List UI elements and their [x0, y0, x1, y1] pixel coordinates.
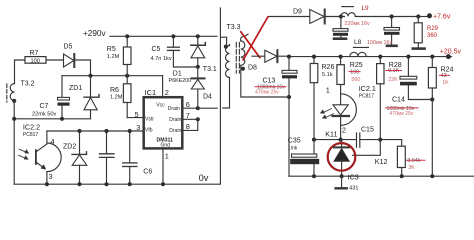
svg-text:D1: D1: [173, 70, 182, 77]
svg-text:470мк 25v: 470мк 25v: [390, 111, 414, 117]
capacitor C13: [255, 57, 297, 97]
junction dot rail/ZD2: [77, 182, 81, 186]
svg-text:Drain: Drain: [169, 117, 181, 123]
node +20.5v terminal: [440, 48, 462, 59]
svg-text:100: 100: [350, 69, 359, 75]
capacitor C7: [32, 97, 70, 118]
junction dot +290/D1: [196, 34, 200, 38]
T3 core lines: [236, 43, 239, 74]
wire drain to winding: [198, 78, 230, 109]
junction dot D8/C13: [287, 55, 291, 59]
junction dot C6/pin3: [128, 129, 132, 133]
IC1 pin 8 stub: [182, 119, 198, 131]
svg-text:R5: R5: [107, 46, 116, 53]
svg-text:5: 5: [135, 110, 139, 119]
red circle TL431: [328, 143, 356, 171]
wire T3.2 top to R7: [15, 60, 26, 84]
node T3.1 junction: [196, 65, 217, 73]
wire to D9: [268, 16, 310, 18]
wire +20.5v rail: [289, 56, 452, 58]
svg-text:L9: L9: [362, 5, 370, 12]
IC1 pin 7 stub: [182, 111, 200, 121]
svg-text:T3.2: T3.2: [21, 81, 35, 88]
svg-text:+7.6v: +7.6v: [433, 14, 451, 21]
svg-text:PC817: PC817: [359, 93, 375, 99]
wire T3.2 bottom to rail: [13, 101, 15, 184]
wire K12 to TL431 ref: [353, 140, 381, 156]
wire Vcc bus: [62, 75, 163, 77]
junction dot C7/pin5: [60, 117, 64, 121]
IC1 pin 6 stub: [182, 100, 200, 110]
svg-text:IC1: IC1: [145, 88, 157, 97]
junction dot R25 top: [339, 55, 343, 59]
svg-text:C35: C35: [288, 138, 301, 145]
diode D1 P6KE200: [169, 36, 206, 84]
svg-text:PC817: PC817: [23, 132, 39, 138]
wire C7 drop: [61, 76, 63, 98]
junction dot R24 top: [430, 55, 434, 59]
junction dot R24/C14: [430, 97, 434, 101]
capacitor C35: [288, 138, 319, 177]
junction dot cap/pin3: [104, 129, 108, 133]
junction dot C35 rail: [312, 174, 316, 178]
IC1 pin 2 wire: [163, 76, 169, 98]
wire K12 to 3K resistor: [380, 140, 401, 147]
svg-text:R29: R29: [427, 26, 439, 32]
junction dot +290/R5: [125, 34, 129, 38]
diode D4: [191, 67, 212, 108]
svg-text:IC2.2: IC2.2: [23, 123, 40, 132]
wire secondary return: [288, 97, 290, 176]
svg-text:6: 6: [186, 100, 190, 109]
junction dot rail/pin1: [161, 182, 165, 186]
junction dot R26 top: [312, 55, 316, 59]
node 0v label: [199, 173, 209, 183]
svg-text:100мк 16v: 100мк 16v: [367, 40, 393, 46]
svg-text:3.94k: 3.94k: [407, 158, 420, 164]
junction dot Vcc/D5: [88, 74, 92, 78]
wire R24C14 to rail: [431, 100, 433, 177]
capacitor C6: [123, 131, 153, 184]
svg-text:22K: 22K: [388, 77, 398, 83]
svg-text:+20.5v: +20.5v: [440, 48, 462, 55]
junction dot ZD2/pin3: [77, 129, 81, 133]
svg-text:5.1k: 5.1k: [322, 72, 333, 78]
node K12: [375, 138, 388, 167]
junction dot +290/C5: [171, 34, 175, 38]
T3.2 core dashed: [6, 84, 8, 102]
svg-text:D5: D5: [64, 44, 73, 51]
svg-text:C5: C5: [152, 46, 161, 53]
svg-text:2: 2: [342, 125, 346, 134]
svg-text:3: 3: [49, 172, 53, 181]
svg-text:7: 7: [186, 111, 190, 120]
red cross arm 1: [243, 17, 268, 60]
junction dot 3K rail: [400, 174, 404, 178]
junction dot Vcc/R5R6: [125, 74, 129, 78]
svg-text:4: 4: [51, 137, 55, 146]
optocoupler IC2.1 LED: [320, 84, 376, 140]
capacitor 100mk: [367, 17, 400, 47]
svg-text:ZD1: ZD1: [69, 85, 82, 92]
svg-text:8: 8: [186, 122, 190, 131]
wire K11 row: [314, 139, 356, 141]
node K11: [325, 130, 343, 142]
zener ZD2: [63, 131, 87, 184]
capacitor C15: [357, 127, 381, 148]
svg-text:1: 1: [165, 152, 169, 161]
IC1 DM311: [144, 88, 183, 148]
optocoupler IC2.2 phototransistor: [19, 123, 62, 185]
T3 primary winding T3.1: [221, 37, 230, 77]
node +290v label: [83, 29, 106, 38]
capacitor on Vfb line: [100, 131, 115, 184]
svg-text:2: 2: [165, 88, 169, 97]
svg-text:T3.3: T3.3: [227, 24, 241, 31]
wire +290v rail: [110, 35, 217, 37]
svg-text:1.2M: 1.2M: [110, 94, 123, 100]
svg-text:P6KE200: P6KE200: [169, 78, 192, 84]
inductor L8: [350, 39, 369, 56]
svg-text:ZD2: ZD2: [63, 143, 76, 150]
junction dot C14 top: [406, 55, 410, 59]
svg-text:3K: 3K: [408, 165, 415, 171]
resistor R25: [337, 57, 363, 105]
svg-text:T3.1: T3.1: [203, 66, 217, 73]
svg-text:Vfb: Vfb: [145, 128, 153, 134]
svg-text:D9: D9: [293, 9, 302, 16]
svg-text:Gnd: Gnd: [161, 142, 171, 148]
wire R7 to D5: [46, 59, 64, 61]
svg-text:C7: C7: [40, 103, 49, 110]
wire T3.2 C7 ZD1 net: [14, 118, 90, 120]
inductor L9: [341, 5, 418, 17]
svg-text:1: 1: [326, 86, 330, 95]
svg-text:4.7n 1kv: 4.7n 1kv: [151, 56, 172, 62]
T3 secondary winding: [241, 41, 289, 97]
junction dot R28 top: [378, 55, 382, 59]
svg-text:470мк 25v: 470мк 25v: [255, 90, 279, 96]
svg-text:Vcc: Vcc: [156, 103, 165, 109]
svg-text:+290v: +290v: [83, 29, 106, 38]
svg-text:1K: 1K: [442, 80, 449, 86]
svg-text:3: 3: [136, 123, 140, 132]
zener ZD1: [69, 76, 99, 119]
junction dot R29: [416, 14, 420, 18]
IC1 pin 5 wire Vstr: [127, 110, 144, 119]
node +7.6v terminal: [418, 13, 451, 20]
resistor R28: [377, 57, 402, 140]
transformer winding T3.2: [10, 81, 34, 101]
svg-text:Vstr: Vstr: [145, 116, 154, 122]
resistor R26: [310, 57, 334, 140]
IC1 pin 1 wire Gnd: [163, 148, 169, 184]
svg-text:220мк 16v: 220мк 16v: [345, 21, 371, 27]
svg-text:C15: C15: [361, 127, 374, 134]
svg-text:R25: R25: [350, 62, 363, 69]
svg-text:D4: D4: [203, 94, 212, 101]
svg-text:43: 43: [441, 73, 447, 79]
resistor R7: [25, 50, 46, 64]
wire secondary top lead: [241, 34, 248, 41]
svg-text:1.2M: 1.2M: [107, 54, 120, 60]
svg-text:IC3: IC3: [348, 173, 359, 182]
diode D8: [248, 50, 289, 71]
resistor R24: [428, 57, 453, 100]
junction dot T3.2/pin5: [12, 117, 16, 121]
wire bottom rail secondary: [289, 175, 474, 177]
capacitor C5: [151, 36, 198, 67]
junction dot rail/R24C14: [430, 174, 434, 178]
wire D5 to Vcc node: [75, 60, 91, 76]
svg-text:0v: 0v: [199, 173, 209, 183]
svg-text:R7: R7: [30, 50, 39, 57]
wire bottom rail primary: [14, 8, 220, 184]
diode D9: [293, 9, 325, 24]
svg-text:C6: C6: [143, 169, 152, 176]
svg-text:R26: R26: [322, 64, 335, 71]
svg-text:D8: D8: [248, 65, 257, 72]
diode D5: [64, 44, 75, 68]
svg-text:360: 360: [427, 33, 438, 39]
junction dot C13/return: [287, 95, 291, 99]
svg-text:C14: C14: [392, 97, 405, 104]
resistor R5: [107, 36, 131, 75]
svg-text:560: 560: [351, 77, 360, 83]
junction dot 100mk: [390, 14, 394, 18]
svg-text:100: 100: [31, 58, 40, 64]
wire D9 to L9: [326, 16, 345, 18]
IC1 pin 3 wire Vfb: [47, 123, 144, 132]
svg-text:1mk: 1mk: [288, 146, 298, 152]
IC3 TL431: [334, 140, 359, 192]
svg-text:IC2.1: IC2.1: [359, 84, 376, 93]
capacitor C14: [386, 57, 433, 117]
junction dot TL431 rail: [340, 174, 344, 178]
svg-text:Drain: Drain: [168, 106, 180, 112]
junction dot rail/cap: [104, 182, 108, 186]
svg-text:9.1K: 9.1K: [388, 68, 399, 74]
red cross arm 2: [241, 32, 260, 58]
svg-text:C13: C13: [263, 77, 276, 84]
svg-text:431: 431: [349, 185, 358, 191]
junction dot K11/R26C35: [312, 138, 316, 142]
capacitor 220mk: [333, 17, 370, 39]
svg-text:Drain: Drain: [169, 128, 181, 134]
junction dot rail/IC2.2: [45, 182, 49, 186]
T3.2 phase dot: [12, 99, 16, 103]
resistor R29: [413, 17, 439, 49]
resistor R6: [110, 76, 131, 118]
resistor 3.94k: [397, 146, 425, 176]
svg-text:22mk 50v: 22mk 50v: [32, 112, 56, 118]
svg-text:K12: K12: [375, 157, 388, 166]
junction dot rail/C6: [128, 182, 132, 186]
junction dot 220mk: [339, 14, 343, 18]
svg-text:R6: R6: [110, 87, 119, 94]
svg-text:K11: K11: [325, 130, 337, 139]
transformer T3 label: [227, 24, 241, 31]
svg-text:L8: L8: [354, 39, 362, 46]
